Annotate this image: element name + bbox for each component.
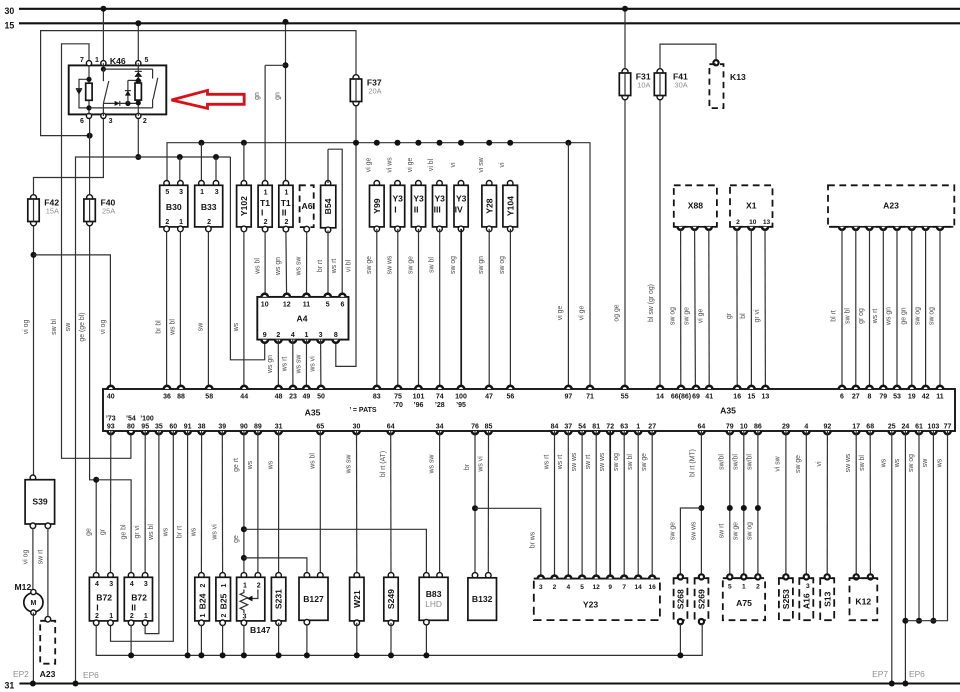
- relay K12 (dashed): [854, 574, 859, 579]
- svg-text:5: 5: [145, 57, 149, 64]
- svg-text:sw rt: sw rt: [37, 550, 44, 565]
- module B83 LHD: [424, 573, 430, 579]
- svg-text:M12: M12: [15, 582, 32, 592]
- svg-text:2: 2: [143, 118, 147, 125]
- svg-text:sw ge: sw ge: [641, 453, 648, 471]
- wire F37 to A4 pin8 (vi bl): [336, 105, 356, 366]
- wire K46 pin6 to F40: [89, 116, 91, 197]
- svg-text:sw bl: sw bl: [627, 454, 634, 470]
- relay contacts B72 II: [128, 573, 134, 579]
- K46 coil 2: [135, 83, 141, 100]
- wire net sw to line 31: [76, 157, 231, 684]
- svg-text:’ = PATS: ’ = PATS: [349, 407, 376, 414]
- K46 coil 1 wire pin7-pin6: [88, 65, 90, 115]
- wire B24 pin1 to ground: [200, 625, 202, 656]
- svg-text:Y102: Y102: [239, 196, 249, 216]
- svg-text:sw bl: sw bl: [845, 308, 852, 324]
- svg-text:2: 2: [756, 584, 760, 591]
- svg-text:EP7: EP7: [872, 669, 888, 679]
- valve Y28: [486, 181, 492, 187]
- svg-text:sw: sw: [65, 323, 72, 331]
- svg-text:4: 4: [804, 424, 808, 431]
- wire F42 to S39 / A35 pin40 (vi og): [33, 227, 35, 478]
- wire F31 to bus 30: [624, 9, 626, 71]
- wire F40 to B72 (ge (ge bl)): [90, 224, 97, 577]
- wire A35 pin95 to B72-II pin3 (gr vi): [144, 431, 146, 575]
- svg-text:24: 24: [902, 424, 910, 431]
- svg-text:A35: A35: [305, 408, 321, 418]
- wire A35 pin25 to ground EP7 (ws): [891, 431, 893, 684]
- svg-text:35: 35: [155, 424, 163, 431]
- module A6 (dashed): [300, 185, 314, 227]
- wire B83 to ground: [425, 624, 427, 655]
- svg-text:ws gn: ws gn: [886, 307, 893, 326]
- svg-text:5: 5: [728, 584, 732, 591]
- wire A35 pin90 to B147 pin1 (ge rt / ge): [243, 431, 245, 577]
- svg-text:gr: gr: [100, 528, 107, 535]
- K46 diode D3 branch: [125, 101, 130, 106]
- wire A35 pin92 to S13 (vi): [826, 431, 828, 577]
- wire A35 pin4 to A16 (sw ge): [805, 431, 807, 577]
- sensor B54: [325, 181, 331, 187]
- svg-text:2: 2: [276, 332, 280, 339]
- svg-text:vi ge: vi ge: [557, 306, 564, 321]
- svg-text:9: 9: [263, 332, 267, 339]
- svg-text:K13: K13: [730, 72, 746, 82]
- svg-text:sw/bl: sw/bl: [747, 454, 754, 470]
- svg-text:vi ws: vi ws: [386, 157, 393, 173]
- wires B30/B33/Y102 to A35 top pins: [166, 231, 168, 389]
- svg-text:B72: B72: [131, 592, 147, 602]
- svg-text:79: 79: [879, 394, 887, 401]
- svg-text:11: 11: [303, 302, 311, 309]
- wire A35 pin77 (ws): [905, 431, 947, 621]
- K46 internal wire pin1 node: [102, 63, 104, 69]
- wire M12 to line 31: [32, 613, 34, 684]
- svg-text:30A: 30A: [675, 81, 688, 90]
- K46 zener pair: [135, 70, 142, 72]
- valve Y3 IV: [458, 181, 464, 187]
- wire splice to B127 left pin: [244, 558, 307, 577]
- svg-text:3: 3: [109, 581, 113, 588]
- svg-text:II: II: [282, 208, 287, 218]
- svg-text:br ws: br ws: [530, 531, 537, 548]
- wires X1 to A35 (gr / bl / gr vi): [736, 230, 738, 389]
- svg-text:2: 2: [200, 583, 207, 587]
- svg-text:89: 89: [254, 424, 262, 431]
- svg-text:10: 10: [261, 302, 269, 309]
- svg-text:ws: ws: [191, 527, 198, 537]
- wires X88 to A35 (sw og / sw ge / vi ge): [680, 230, 682, 389]
- svg-text:84: 84: [551, 424, 559, 431]
- svg-text:27: 27: [648, 424, 656, 431]
- svg-text:A16: A16: [802, 593, 812, 609]
- K46 diode D1 bracket: [79, 79, 89, 108]
- svg-text:gn: gn: [254, 92, 261, 100]
- svg-text:B54: B54: [323, 198, 333, 214]
- svg-text:31: 31: [5, 681, 15, 691]
- fuse F40 25A: [87, 195, 93, 201]
- svg-text:6: 6: [80, 118, 84, 125]
- svg-text:2: 2: [207, 219, 211, 226]
- svg-text:40: 40: [107, 394, 115, 401]
- valve block Y23 (dashed): [534, 579, 660, 621]
- svg-text:vi bl: vi bl: [428, 158, 435, 171]
- svg-text:20A: 20A: [368, 87, 381, 96]
- svg-text:3: 3: [144, 581, 148, 588]
- svg-text:sw og: sw og: [747, 522, 754, 540]
- svg-text:B72: B72: [96, 592, 112, 602]
- svg-text:4: 4: [130, 581, 134, 588]
- svg-text:ws bl: ws bl: [169, 319, 176, 336]
- svg-text:86: 86: [754, 424, 762, 431]
- svg-text:S269: S269: [697, 589, 707, 609]
- svg-text:sw gn: sw gn: [478, 256, 485, 274]
- svg-text:90: 90: [240, 424, 248, 431]
- fuse F31 10A: [622, 69, 628, 75]
- wires Y valves to A35 top pins: [376, 229, 378, 389]
- svg-text:gr og: gr og: [858, 308, 865, 324]
- svg-text:75: 75: [394, 394, 402, 401]
- switch S253: [779, 578, 793, 620]
- svg-text:sw bl: sw bl: [859, 455, 866, 471]
- wire B54 top to A4 pin6 (ws rt): [327, 149, 329, 183]
- svg-text:83: 83: [373, 394, 381, 401]
- svg-text:2: 2: [130, 613, 134, 620]
- svg-text:1: 1: [243, 583, 247, 590]
- svg-text:gn: gn: [275, 92, 282, 100]
- K46 diode D2: [115, 101, 120, 106]
- svg-text:71: 71: [586, 394, 594, 401]
- svg-text:vi og: vi og: [23, 320, 30, 335]
- module A75 (dashed): [723, 578, 765, 620]
- svg-text:sw ge: sw ge: [683, 307, 690, 325]
- svg-text:3: 3: [179, 189, 183, 196]
- svg-text:3: 3: [109, 118, 113, 125]
- svg-text:sw og: sw og: [908, 454, 915, 472]
- svg-text:3: 3: [806, 583, 810, 590]
- wires A35 to A75 (sw/bl then sw rt sw ge sw og): [729, 431, 731, 577]
- svg-text:95: 95: [141, 424, 149, 431]
- svg-text:T1: T1: [281, 198, 291, 208]
- wire B30 pin3 stub: [179, 157, 181, 185]
- wire A35 pin39 to B25 (ws vi): [221, 431, 223, 575]
- svg-text:93: 93: [107, 424, 115, 431]
- svg-text:7: 7: [622, 584, 626, 591]
- svg-text:sw rt: sw rt: [718, 524, 725, 539]
- svg-text:15: 15: [5, 20, 15, 30]
- svg-text:sw og: sw og: [929, 307, 936, 325]
- svg-text:4: 4: [95, 581, 99, 588]
- K46 coil 2 wire pin5-pin2: [137, 63, 139, 116]
- svg-text:48: 48: [275, 394, 283, 401]
- svg-text:B127: B127: [303, 594, 324, 604]
- svg-text:15: 15: [748, 394, 756, 401]
- svg-text:2: 2: [264, 219, 268, 226]
- svg-text:10: 10: [749, 219, 757, 226]
- svg-text:sw: sw: [198, 323, 205, 331]
- wire A35 pin76 to B132 pin1 (br): [474, 431, 476, 577]
- svg-text:sw og: sw og: [669, 307, 676, 325]
- svg-text:’70: ’70: [393, 402, 403, 409]
- relay K46: [69, 65, 167, 114]
- valve Y102: [241, 181, 247, 187]
- svg-text:10A: 10A: [637, 81, 650, 90]
- sensor T1 II: [283, 181, 289, 187]
- svg-text:41: 41: [705, 394, 713, 401]
- svg-text:2: 2: [736, 219, 740, 226]
- svg-text:ws bl: ws bl: [254, 258, 261, 275]
- wire S268 to ground: [679, 624, 681, 656]
- svg-text:10: 10: [740, 424, 748, 431]
- svg-text:54: 54: [578, 424, 586, 431]
- wire A35 pin65 to B127 right pin (ws bl): [319, 431, 321, 577]
- wire K46 pin5 to bus 15: [137, 23, 139, 63]
- svg-text:ws gn: ws gn: [275, 257, 282, 276]
- svg-text:15A: 15A: [46, 207, 59, 216]
- svg-text:31: 31: [275, 424, 283, 431]
- svg-text:M: M: [30, 600, 36, 607]
- svg-text:ge gn: ge gn: [901, 307, 908, 324]
- wire K46 pin2 ground net (sw): [137, 116, 139, 157]
- svg-text:sw ge: sw ge: [669, 522, 676, 540]
- svg-text:S253: S253: [781, 589, 791, 609]
- wire A35 pin68 to K12 pin2 (sw bl): [869, 431, 871, 577]
- svg-text:ws vi: ws vi: [477, 456, 484, 473]
- svg-text:gr vi: gr vi: [134, 525, 141, 538]
- svg-text:vi bl: vi bl: [345, 259, 352, 272]
- svg-text:sw og: sw og: [914, 307, 921, 325]
- wire W21 to ground: [356, 623, 358, 656]
- svg-text:1: 1: [284, 190, 288, 197]
- svg-text:bl sw (gr og): bl sw (gr og): [648, 284, 655, 322]
- svg-text:9: 9: [608, 584, 612, 591]
- svg-text:25: 25: [888, 424, 896, 431]
- wires A35 to Y23 pins: [554, 431, 556, 577]
- connector X1 (dashed): [730, 185, 773, 227]
- wire F41 to K13: [660, 44, 716, 70]
- wire bus to A35 pin97 (vi ge): [567, 143, 569, 389]
- svg-text:30: 30: [353, 424, 361, 431]
- wire K46 pin7 to A35 pin80 (sw bl): [62, 44, 131, 459]
- svg-text:og ge: og ge: [613, 304, 620, 321]
- svg-text:ws: ws: [894, 458, 901, 468]
- svg-text:W21: W21: [352, 590, 362, 608]
- svg-text:A23: A23: [40, 669, 56, 679]
- svg-text:sw ws: sw ws: [845, 453, 852, 472]
- svg-text:’100: ’100: [140, 415, 154, 422]
- svg-text:sw/bl: sw/bl: [732, 454, 739, 470]
- wire B54 bottom to A4 pin5 (br rt): [327, 231, 329, 297]
- svg-text:17: 17: [852, 424, 860, 431]
- svg-text:ws gn: ws gn: [267, 355, 274, 374]
- wire S39 to M12 (vi og): [32, 528, 34, 592]
- svg-text:ws: ws: [233, 322, 240, 332]
- svg-text:ws rt: ws rt: [331, 259, 338, 275]
- svg-text:’96: ’96: [414, 402, 424, 409]
- wire K46 pin6 to F37 top: [41, 31, 356, 136]
- svg-text:3: 3: [215, 189, 219, 196]
- svg-text:37: 37: [564, 424, 572, 431]
- svg-text:2: 2: [284, 219, 288, 226]
- svg-text:2: 2: [165, 219, 169, 226]
- svg-text:ws rt: ws rt: [543, 455, 550, 471]
- svg-text:29: 29: [782, 424, 790, 431]
- svg-text:vi: vi: [499, 162, 506, 167]
- svg-text:ws vi: ws vi: [211, 524, 218, 541]
- K46 internal rail 2: [89, 107, 153, 109]
- wire K46 pin1 to bus 30: [102, 9, 104, 63]
- svg-text:1: 1: [144, 613, 148, 620]
- svg-text:50: 50: [317, 394, 325, 401]
- module A4: [257, 297, 348, 340]
- wire A35 pin93 to B72-I pin3 (gr): [110, 431, 112, 575]
- wire A35 pin91 to ground bus (br rt): [187, 431, 189, 655]
- sensor B24: [199, 573, 205, 579]
- svg-text:vi: vi: [816, 461, 823, 466]
- svg-text:64: 64: [698, 424, 706, 431]
- svg-text:gr vi: gr vi: [754, 309, 761, 322]
- valve Y99: [374, 181, 380, 187]
- svg-text:1: 1: [264, 190, 268, 197]
- svg-text:S39: S39: [32, 497, 48, 507]
- A35 bottom pins: [108, 431, 114, 434]
- svg-text:A4: A4: [297, 314, 308, 324]
- wire F41 to A35 pin14 (bl sw (gr og)): [659, 97, 661, 389]
- svg-text:EP6: EP6: [909, 669, 925, 679]
- svg-text:103: 103: [928, 424, 940, 431]
- svg-text:1: 1: [109, 613, 113, 620]
- switch S249: [388, 573, 394, 579]
- svg-text:sw og: sw og: [450, 256, 457, 274]
- K46 switch 2 pivot: [152, 99, 154, 108]
- svg-text:91: 91: [184, 424, 192, 431]
- sensor B33: [199, 181, 205, 187]
- svg-text:vi og: vi og: [100, 320, 107, 335]
- svg-text:B33: B33: [201, 202, 217, 212]
- svg-text:5: 5: [580, 584, 584, 591]
- ground bus to EP6: [96, 624, 702, 656]
- sensor T1 I: [262, 181, 268, 187]
- svg-text:44: 44: [240, 394, 248, 401]
- svg-text:1: 1: [221, 583, 228, 587]
- svg-text:ws vi: ws vi: [309, 356, 316, 373]
- K46 internal rail: [103, 102, 138, 104]
- svg-text:1: 1: [636, 424, 640, 431]
- wires A23 to A35: [841, 230, 843, 389]
- svg-text:92: 92: [824, 424, 832, 431]
- svg-text:sw bl: sw bl: [429, 257, 436, 273]
- svg-text:bl rt (AT): bl rt (AT): [380, 451, 387, 477]
- svg-text:bl: bl: [740, 313, 747, 319]
- svg-text:77: 77: [944, 424, 952, 431]
- wire A35 pin31 to S231 (ws): [278, 431, 280, 577]
- wires A4 to A35 top pins: [277, 340, 279, 389]
- svg-text:I: I: [394, 205, 396, 215]
- svg-text:101: 101: [413, 394, 425, 401]
- svg-text:3: 3: [243, 614, 247, 621]
- svg-text:ws: ws: [881, 458, 888, 468]
- svg-text:1: 1: [742, 584, 746, 591]
- svg-text:38: 38: [198, 424, 206, 431]
- svg-text:4: 4: [566, 584, 570, 591]
- svg-text:64: 64: [387, 424, 395, 431]
- svg-text:A35: A35: [720, 406, 736, 416]
- svg-text:11: 11: [936, 394, 944, 401]
- svg-text:76: 76: [471, 424, 479, 431]
- svg-text:’54: ’54: [126, 415, 136, 422]
- svg-text:Y3: Y3: [413, 194, 424, 204]
- svg-text:Y3: Y3: [434, 194, 445, 204]
- svg-text:13: 13: [763, 219, 771, 226]
- potentiometer B147: [241, 573, 247, 579]
- svg-text:34: 34: [436, 424, 444, 431]
- wire B127 to ground: [306, 624, 308, 655]
- svg-text:sw og: sw og: [499, 256, 506, 274]
- svg-text:vi: vi: [450, 162, 457, 167]
- svg-text:sw og: sw og: [613, 453, 620, 471]
- switch S268: [674, 578, 688, 620]
- svg-text:ws: ws: [936, 458, 943, 468]
- svg-text:ge: ge: [233, 535, 240, 543]
- svg-text:12: 12: [283, 302, 291, 309]
- svg-text:23: 23: [289, 394, 297, 401]
- wire A35 pin64 to S269/S268 (bl rt (MT)): [700, 431, 702, 577]
- svg-text:ws rt: ws rt: [872, 309, 879, 325]
- svg-text:B132: B132: [472, 594, 493, 604]
- net B30 pin3 / B33 pin3 / A4 pin9: [230, 157, 264, 360]
- svg-text:IV: IV: [455, 205, 463, 215]
- svg-text:sw bl: sw bl: [51, 319, 58, 335]
- wire B72-II pin2 to ground: [130, 625, 132, 656]
- svg-text:sw ws: sw ws: [599, 452, 606, 471]
- svg-text:T1: T1: [260, 198, 270, 208]
- svg-text:55: 55: [621, 394, 629, 401]
- sensor B25: [220, 573, 226, 579]
- svg-text:81: 81: [592, 424, 600, 431]
- svg-text:sw ge: sw ge: [366, 256, 373, 274]
- svg-text:sw: sw: [922, 459, 929, 467]
- svg-text:S231: S231: [274, 589, 284, 609]
- svg-text:6: 6: [840, 394, 844, 401]
- svg-text:ws: ws: [268, 460, 275, 470]
- svg-text:vi og: vi og: [22, 550, 29, 565]
- svg-text:25A: 25A: [102, 207, 115, 216]
- svg-text:100: 100: [455, 394, 467, 401]
- valve Y104: [507, 181, 513, 187]
- relay contacts B72 I: [93, 573, 99, 579]
- svg-text:III: III: [434, 205, 441, 215]
- connector X88 (dashed): [674, 185, 717, 227]
- fuse F42 15A: [31, 195, 37, 201]
- svg-text:66(86): 66(86): [671, 394, 691, 401]
- svg-text:gr: gr: [726, 312, 733, 319]
- svg-text:B83: B83: [426, 589, 442, 599]
- sensor W21: [354, 573, 360, 579]
- svg-text:63: 63: [620, 424, 628, 431]
- svg-text:B147: B147: [250, 625, 271, 635]
- svg-text:br rt: br rt: [317, 260, 324, 272]
- svg-text:br rt: br rt: [177, 526, 184, 538]
- wire B147 pin3 to ground: [243, 625, 245, 656]
- svg-text:sw ge: sw ge: [795, 455, 802, 473]
- svg-text:97: 97: [565, 394, 573, 401]
- switch S231: [276, 573, 282, 579]
- svg-text:14: 14: [635, 584, 643, 591]
- svg-text:47: 47: [485, 394, 493, 401]
- svg-text:1: 1: [179, 219, 183, 226]
- svg-text:79: 79: [726, 424, 734, 431]
